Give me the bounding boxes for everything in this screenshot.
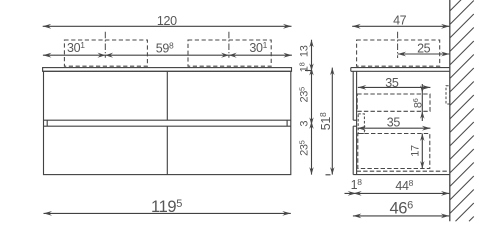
svg-text:235: 235 [297, 140, 310, 156]
front view countertop [43, 68, 292, 72]
drawer divider [166, 71, 168, 174]
side basin dashed [357, 40, 440, 66]
svg-text:18: 18 [297, 62, 310, 72]
front view body [44, 71, 291, 174]
siphon dashed rect on wall [446, 86, 450, 104]
svg-text:3: 3 [299, 121, 311, 127]
svg-text:35: 35 [387, 116, 401, 130]
side countertop [351, 68, 450, 72]
dim 17 drawer height [410, 134, 425, 169]
dim 120 top [43, 14, 292, 29]
dim 46.6 [353, 200, 449, 219]
svg-text:448: 448 [395, 178, 413, 193]
lower drawer dashed box [358, 134, 430, 169]
side bottom [353, 174, 450, 176]
front gap band [44, 120, 291, 126]
svg-text:17: 17 [410, 145, 422, 157]
svg-text:518: 518 [318, 112, 333, 130]
side basin centerline [397, 32, 399, 58]
svg-text:35: 35 [385, 76, 399, 90]
wall line [449, 0, 451, 221]
wall hatching [450, 0, 474, 221]
basin 1 dashed [64, 40, 147, 66]
vertical chain dims 13/1.8/23.5/3/23.5 [297, 40, 313, 175]
dim 51.8 overall height [318, 68, 334, 175]
svg-text:13: 13 [299, 45, 311, 57]
dim 25 [398, 42, 450, 57]
basin 2 dashed [188, 40, 271, 66]
centerline basin 1 [104, 32, 106, 58]
svg-text:25: 25 [417, 42, 431, 56]
centerline basin 2 [228, 32, 230, 58]
dim 1.8 / 44.8 [345, 177, 450, 196]
upper drawer dashed box [357, 94, 430, 111]
dim 35 lower [358, 116, 431, 131]
bottom panel dashed line [357, 170, 449, 172]
svg-text:235: 235 [297, 87, 310, 103]
side front panel [353, 71, 356, 174]
small dashed rect (runner) [358, 114, 364, 134]
dim 8.6 drawer height [411, 84, 424, 121]
svg-text:47: 47 [393, 14, 407, 28]
dim 35 upper [358, 76, 431, 90]
svg-text:598: 598 [156, 40, 174, 55]
svg-text:466: 466 [389, 200, 413, 218]
dim 47 [352, 14, 449, 29]
dims row 30.1 / 59.8 / 30.1 [43, 40, 292, 58]
svg-text:301: 301 [67, 40, 85, 55]
svg-text:301: 301 [249, 40, 267, 55]
svg-text:18: 18 [351, 177, 363, 192]
dim 119.5 bottom [44, 198, 291, 216]
svg-text:120: 120 [157, 14, 177, 28]
